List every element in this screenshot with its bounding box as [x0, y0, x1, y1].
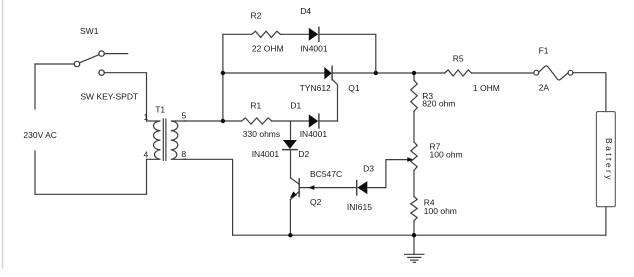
resistor R5 — [445, 70, 472, 76]
transformer T1 secondary winding — [171, 121, 186, 159]
svg-text:100 ohm: 100 ohm — [424, 206, 457, 216]
wire: battery to bottom rail — [605, 207, 607, 236]
switch SW1 common terminal — [74, 61, 79, 66]
wire: Q1 gate — [332, 79, 337, 121]
diode D4 — [309, 28, 318, 41]
node: Q2 emitter / bottom rail — [288, 233, 292, 237]
svg-text:BC547C: BC547C — [310, 169, 342, 179]
svg-text:22 OHM: 22 OHM — [252, 43, 284, 53]
node: R3 top — [412, 71, 416, 75]
switch SW1 upper throw terminal — [99, 51, 104, 56]
svg-text:INI615: INI615 — [347, 202, 372, 212]
junction dots — [221, 71, 416, 238]
page left border — [2, 0, 4, 268]
svg-text:F1: F1 — [539, 46, 549, 56]
wire: R1 to D1 — [272, 120, 309, 122]
svg-text:2A: 2A — [539, 83, 550, 93]
wire: R3 top — [413, 73, 415, 80]
node: D4 branch rejoin — [374, 71, 378, 75]
wire: D2 to Q2 collector — [290, 149, 292, 178]
wire: R3 to R7 — [413, 111, 415, 142]
svg-text:100 ohm: 100 ohm — [430, 149, 463, 159]
svg-text:TYN612: TYN612 — [300, 83, 331, 93]
wire: AC source left vertical bottom — [34, 151, 36, 194]
svg-text:R2: R2 — [251, 11, 262, 21]
diode D1 — [309, 114, 318, 127]
svg-text:1: 1 — [144, 112, 149, 122]
wire: lower throw to T1 pin 1 — [104, 73, 146, 121]
wire: fuse to battery — [573, 73, 606, 112]
fuse F1 — [534, 70, 539, 75]
svg-text:R1: R1 — [250, 101, 261, 111]
svg-text:1 OHM: 1 OHM — [473, 83, 500, 93]
wire: D4 to right, down to main line — [319, 34, 376, 73]
switch SW1 lever — [80, 55, 100, 63]
wire: common line to SW1 — [35, 63, 74, 65]
switch SW1 lower throw terminal — [99, 70, 104, 75]
resistor R3 — [411, 80, 417, 111]
transformer T1 core — [162, 119, 164, 160]
wire: Q2 emitter down — [289, 200, 291, 236]
wire: riser to T1 pin 4 — [146, 159, 148, 194]
transistor Q2 BC547C — [291, 178, 300, 184]
ground — [413, 235, 415, 254]
battery BT — [596, 112, 615, 207]
svg-text:D1: D1 — [290, 101, 301, 111]
svg-text:Q2: Q2 — [310, 197, 322, 207]
wire: T1 pin 8 line — [184, 159, 233, 235]
wire: left vertical node x=223 — [222, 34, 224, 121]
wire: top branch left — [223, 33, 252, 35]
svg-text:D3: D3 — [363, 163, 374, 173]
svg-text:5: 5 — [182, 110, 187, 120]
transformer T1 primary winding — [147, 121, 161, 159]
svg-text:SW1: SW1 — [80, 26, 99, 36]
wire: R2 to D4 — [280, 33, 309, 35]
wire: bottom left horizontal — [35, 193, 147, 195]
svg-text:Battery: Battery — [604, 138, 614, 180]
svg-text:4: 4 — [144, 149, 149, 159]
diode D2 — [283, 140, 297, 149]
wire: D1 cathode to gate riser — [319, 120, 338, 122]
svg-text:820 ohm: 820 ohm — [422, 99, 455, 109]
wire: R1 line — [223, 120, 241, 122]
resistor R4 — [411, 196, 417, 220]
svg-text:230V AC: 230V AC — [23, 130, 57, 140]
wire: main line Q1 to R5 — [332, 72, 445, 74]
svg-text:D4: D4 — [300, 6, 311, 16]
svg-text:D2: D2 — [298, 149, 309, 159]
svg-text:SW KEY-SPDT: SW KEY-SPDT — [80, 92, 138, 102]
wire: D3 to wiper riser — [367, 160, 408, 188]
node: R1 line / left vertical — [221, 119, 225, 123]
wire: R7 to R4 — [413, 170, 415, 196]
resistor R7 — [411, 142, 417, 170]
wire: bottom rail — [233, 234, 606, 236]
svg-text:IN4001: IN4001 — [300, 43, 328, 53]
svg-text:IN4001: IN4001 — [252, 149, 280, 159]
svg-text:T1: T1 — [155, 105, 165, 115]
svg-text:Q1: Q1 — [348, 83, 360, 93]
wire: AC source left vertical top — [34, 64, 36, 109]
svg-text:R5: R5 — [453, 53, 464, 63]
wire: upper throw stub — [104, 53, 127, 55]
node: R4 / ground — [412, 233, 416, 237]
diode D3 INI615 — [356, 181, 358, 196]
wire: R4 to bottom rail — [413, 221, 415, 236]
svg-text:330 ohms: 330 ohms — [243, 129, 280, 139]
wire: D2 branch down — [290, 121, 292, 140]
wire: main SCR line left — [223, 72, 324, 74]
node: main line / left vertical — [221, 71, 225, 75]
thyristor Q1 TYN612 — [324, 67, 332, 79]
svg-text:IN4001: IN4001 — [300, 129, 328, 139]
wire: R5 to fuse — [472, 72, 534, 74]
resistor R2 — [252, 31, 281, 37]
svg-text:8: 8 — [181, 149, 186, 159]
potentiometer wiper arrow — [407, 157, 413, 162]
wire: T1 pin 5 to node — [184, 120, 223, 122]
resistor R1 — [242, 118, 272, 124]
